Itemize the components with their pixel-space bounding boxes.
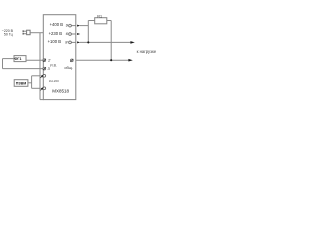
svg-text:к нагрузке: к нагрузке [137,49,157,54]
svg-text:+400 В: +400 В [50,22,64,27]
svg-text:50 Гц: 50 Гц [4,33,13,37]
svg-text:+100 В: +100 В [48,39,62,44]
svg-text:2: 2 [47,58,51,63]
svg-text:ФГ1: ФГ1 [14,57,21,61]
svg-text:+230 В: +230 В [49,31,63,36]
svg-text:ПЗВМ: ПЗВМ [16,81,26,85]
svg-text:8: 8 [65,40,68,45]
svg-text:И.В.: И.В. [50,63,57,67]
svg-text:9: 9 [66,23,69,28]
svg-text:6: 6 [66,31,69,36]
svg-text:R1: R1 [97,15,102,19]
svg-text:общ.: общ. [64,66,72,70]
svg-text:КН-200: КН-200 [49,79,59,83]
svg-text:МХ8518: МХ8518 [52,88,69,93]
